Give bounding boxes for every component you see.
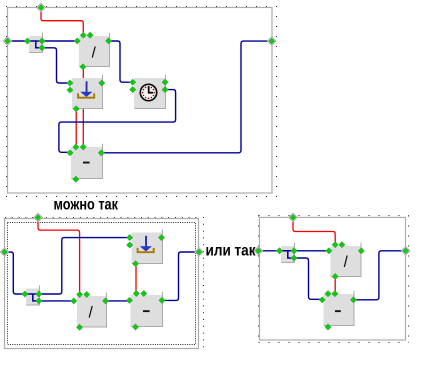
U12 node bottom xyxy=(325,324,331,330)
container G3 border xyxy=(260,217,406,340)
subtract U5 minus glyph xyxy=(83,162,90,164)
wire blue: hub U6 out1 up to store U8 left xyxy=(39,238,130,294)
wire red: store U8 bottom to subtract U9 top1 xyxy=(135,264,137,294)
container G3 selection dots xyxy=(259,215,410,217)
U12 node top1 xyxy=(325,291,331,297)
U7 node left xyxy=(71,298,77,304)
U11 node right xyxy=(358,248,364,254)
U8 node left-top xyxy=(127,234,133,240)
wire blue: G1 left port to hub U1 xyxy=(8,40,28,42)
G2 right port xyxy=(195,248,204,257)
subtract U9 (G2) xyxy=(131,292,164,327)
U9 node top2 xyxy=(141,290,147,296)
subtract U5 (G1) xyxy=(71,144,103,179)
U11 node top1 xyxy=(332,242,338,248)
wire blue: subtract U9 right to G2 right port xyxy=(162,252,199,300)
wire red: divide U11 bottom to subtract U12 top2 xyxy=(334,277,336,294)
svg-text:можно так: можно так xyxy=(54,197,119,214)
U4 node right-top xyxy=(162,79,168,85)
U5 node bottom xyxy=(73,176,79,182)
U9 node right xyxy=(159,297,165,303)
wire blue: hub U1 out1 to divide U2 left xyxy=(42,40,78,42)
U3 node right xyxy=(99,80,105,86)
divide U7 slash glyph xyxy=(89,306,92,318)
store U8 down-arrow icon xyxy=(138,236,154,252)
wire blue: hub U10 out2 to subtract U12 left xyxy=(294,258,322,299)
container G2 inner dense dotted rect xyxy=(8,223,196,345)
wire blue: hub U6 out2 to divide U7 left xyxy=(39,300,74,302)
wire blue: G2 left port to hub U6 xyxy=(5,252,25,294)
wire red: G1 top port to divide U2 top xyxy=(41,8,83,35)
hub U6 (G2) xyxy=(25,285,40,305)
U11 node bottom xyxy=(332,273,338,279)
U7 node top1 xyxy=(76,291,82,297)
G1 right port xyxy=(267,37,276,46)
wire blue: hub U10 out1 to divide U11 left xyxy=(294,250,329,252)
container G1 border xyxy=(8,8,273,194)
U4 node left-top xyxy=(130,79,136,85)
U2 node right xyxy=(105,38,111,44)
U2 node left xyxy=(74,38,80,44)
G1 left port xyxy=(3,37,12,46)
U5 node left xyxy=(67,150,73,156)
G2 left port xyxy=(0,248,9,257)
U3 node left-top xyxy=(67,80,73,86)
U9 node left xyxy=(126,297,132,303)
U3 node left-bottom xyxy=(67,87,73,93)
hub U1 (G1) xyxy=(28,33,44,53)
U3 node bottom xyxy=(73,106,79,112)
U8 node left-bottom xyxy=(127,242,133,248)
divide U11 (G3) xyxy=(331,243,362,277)
container G2 selection dots xyxy=(5,217,201,219)
timer U4 clock icon xyxy=(140,84,156,100)
timer U4 (G1) xyxy=(134,75,166,109)
G3 right port xyxy=(401,246,410,255)
U7 node bottom xyxy=(76,324,82,330)
divide U7 (G2) xyxy=(77,293,107,328)
wire blue: timer U4 right to subtract U5 left xyxy=(59,90,176,153)
wire red: G3 top port to divide U11 top xyxy=(293,218,335,245)
divide U2 slash glyph xyxy=(92,47,95,58)
U11 node top2 xyxy=(339,242,345,248)
U4 node right-bottom xyxy=(162,86,168,92)
container G2 border xyxy=(5,219,199,349)
store U3 down-arrow icon xyxy=(78,81,94,97)
U9 node bottom xyxy=(132,324,138,330)
U4 node left-bottom xyxy=(130,86,136,92)
container G1 selection dots xyxy=(6,6,277,8)
U5 node right xyxy=(98,150,104,156)
U7 node top2 xyxy=(84,291,90,297)
wire red: store U3 bottom to subtract U5 top1 xyxy=(75,109,77,147)
wire blue: divide U2 right to timer U4 left xyxy=(109,41,133,82)
G3 left port xyxy=(254,246,263,255)
store U8 (G2) xyxy=(132,229,164,264)
U9 node top1 xyxy=(133,290,139,296)
wire red: divide U2 bottom to subtract U5 top2 (passes under U3) xyxy=(82,67,84,148)
subtract U12 (G3) xyxy=(324,291,355,326)
U2 node bottom xyxy=(80,64,86,70)
divide U11 slash glyph xyxy=(344,256,347,268)
G1 top port xyxy=(37,3,46,12)
wire blue: divide U7 right to subtract U9 left xyxy=(106,300,130,302)
wire blue: subtract U12 right to G3 right port xyxy=(354,251,406,300)
subtract U12 minus glyph xyxy=(335,310,341,312)
G2 top port xyxy=(34,213,43,222)
U8 node right xyxy=(158,234,164,240)
divide U2 (G1) xyxy=(79,33,110,67)
U5 node top1 xyxy=(73,144,79,150)
U8 node bottom xyxy=(132,261,138,267)
U12 node left xyxy=(319,297,325,303)
U7 node right xyxy=(102,298,108,304)
store U3 (G1) xyxy=(72,75,103,109)
svg-text:или так: или так xyxy=(206,243,256,260)
subtract U9 minus glyph xyxy=(143,310,150,312)
wire blue: hub U1 out2 to store U3 left xyxy=(42,48,70,83)
G3 top port xyxy=(289,213,298,222)
hub U10 (G3) xyxy=(280,243,296,263)
U12 node top2 xyxy=(332,291,338,297)
U2 node top2 xyxy=(87,32,93,38)
U2 node top1 xyxy=(80,32,86,38)
wire blue: G3 left port to hub U10 xyxy=(258,250,279,252)
wire red: G2 top port to divide U7 top xyxy=(38,218,80,294)
U5 node top2 xyxy=(80,144,86,150)
wire blue: subtract U5 right to G1 right port xyxy=(101,41,271,153)
U11 node left xyxy=(326,248,332,254)
U12 node right xyxy=(350,297,356,303)
